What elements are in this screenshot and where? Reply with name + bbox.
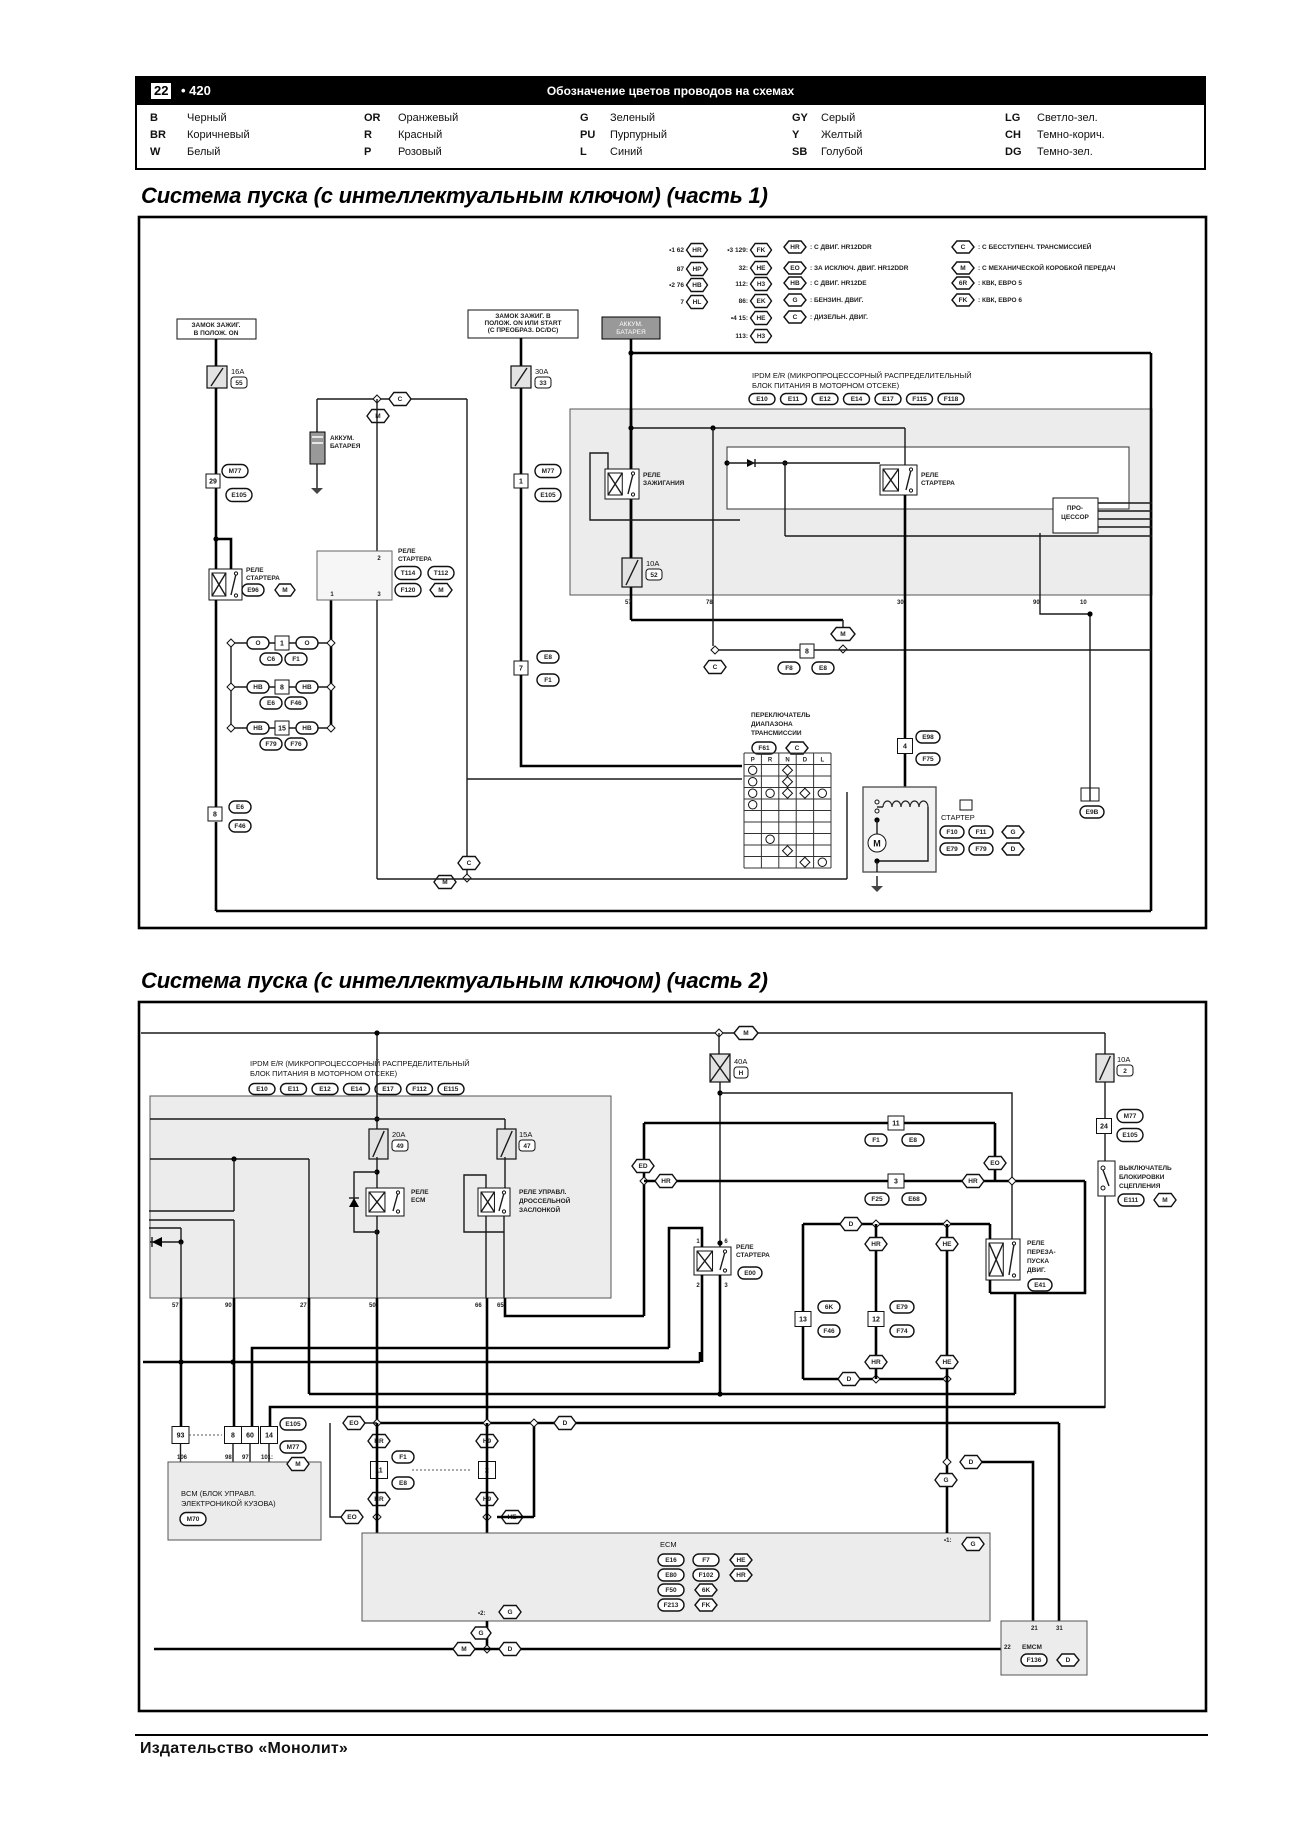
svg-text:F1: F1 — [292, 656, 300, 663]
svg-text:52: 52 — [650, 572, 658, 579]
svg-text:РЕЛЕ: РЕЛЕ — [643, 472, 661, 479]
svg-text:E6: E6 — [236, 804, 244, 811]
svg-text:HE: HE — [756, 315, 766, 322]
svg-text:В ПОЛОЖ. ON: В ПОЛОЖ. ON — [194, 330, 239, 337]
svg-text:15: 15 — [278, 725, 286, 732]
svg-text:M77: M77 — [229, 468, 242, 475]
svg-text:HR: HR — [968, 1178, 978, 1185]
svg-text:СЦЕПЛЕНИЯ: СЦЕПЛЕНИЯ — [1119, 1183, 1161, 1190]
svg-text:C: C — [398, 396, 403, 403]
svg-text:: С БЕССТУПЕНЧ. ТРАНСМИССИЕЙ: : С БЕССТУПЕНЧ. ТРАНСМИССИЕЙ — [978, 242, 1092, 251]
svg-text:E96: E96 — [247, 587, 259, 594]
svg-text:РЕЛЕ: РЕЛЕ — [921, 472, 939, 479]
svg-text:F50: F50 — [665, 1587, 677, 1594]
svg-text:C: C — [961, 244, 966, 251]
svg-text:F112: F112 — [412, 1086, 427, 1093]
svg-text:ЗАСЛОНКОЙ: ЗАСЛОНКОЙ — [519, 1205, 560, 1214]
svg-text:1: 1 — [696, 1239, 700, 1245]
svg-text:E8: E8 — [544, 654, 552, 661]
svg-text:E8: E8 — [909, 1137, 917, 1144]
svg-text:FK: FK — [757, 247, 766, 254]
svg-text:E105: E105 — [540, 492, 556, 499]
svg-text:D: D — [1066, 1657, 1071, 1664]
svg-text:C: C — [793, 314, 798, 321]
svg-text:EO: EO — [990, 1160, 999, 1167]
svg-text:ECM: ECM — [660, 1540, 677, 1549]
svg-text:EMCM: EMCM — [1022, 1644, 1042, 1651]
svg-text:57: 57 — [172, 1303, 179, 1309]
svg-text:M: M — [873, 839, 881, 849]
svg-text:HP: HP — [692, 266, 702, 273]
svg-text:FK: FK — [959, 297, 968, 304]
svg-text:•4 15:: •4 15: — [731, 315, 748, 322]
svg-text:F136: F136 — [1027, 1657, 1042, 1664]
svg-text:E41: E41 — [1034, 1282, 1046, 1289]
svg-text:EO: EO — [349, 1420, 358, 1427]
svg-text:G: G — [507, 1609, 512, 1616]
svg-text:M: M — [461, 1646, 466, 1653]
svg-text:8: 8 — [280, 684, 284, 691]
svg-text:HL: HL — [693, 299, 702, 306]
svg-text:F46: F46 — [823, 1328, 835, 1335]
svg-text:47: 47 — [523, 1143, 531, 1150]
svg-text:6K: 6K — [702, 1587, 711, 1594]
svg-text:78: 78 — [706, 600, 713, 606]
svg-text:ВЫКЛЮЧАТЕЛЬ: ВЫКЛЮЧАТЕЛЬ — [1119, 1165, 1172, 1172]
svg-text:FK: FK — [702, 1602, 711, 1609]
svg-text:HR: HR — [692, 247, 702, 254]
svg-text:E105: E105 — [231, 492, 247, 499]
svg-text:C6: C6 — [267, 656, 276, 663]
svg-text:E11: E11 — [288, 1086, 300, 1093]
svg-text:8: 8 — [805, 648, 809, 655]
svg-text:E68: E68 — [908, 1196, 920, 1203]
svg-text:СТАРТЕРА: СТАРТЕРА — [246, 575, 280, 582]
svg-text:РЕЛЕ: РЕЛЕ — [411, 1189, 429, 1196]
svg-text:7: 7 — [680, 299, 684, 306]
svg-text:3: 3 — [894, 1178, 898, 1185]
svg-text:31: 31 — [1056, 1626, 1063, 1632]
svg-text:СТАРТЕРА: СТАРТЕРА — [921, 480, 955, 487]
svg-text:ЭЛЕКТРОНИКОЙ КУЗОВА): ЭЛЕКТРОНИКОЙ КУЗОВА) — [181, 1499, 276, 1508]
svg-text:55: 55 — [235, 380, 243, 387]
svg-text:E10: E10 — [256, 1086, 268, 1093]
svg-text:: ДИЗЕЛЬН. ДВИГ.: : ДИЗЕЛЬН. ДВИГ. — [810, 314, 868, 321]
svg-text:ПЕРЕЗА-: ПЕРЕЗА- — [1027, 1249, 1056, 1256]
svg-text:C: C — [795, 745, 800, 752]
svg-text:87: 87 — [677, 266, 685, 273]
svg-text:32:: 32: — [739, 265, 748, 272]
svg-text:D: D — [803, 758, 808, 764]
svg-text:E14: E14 — [851, 396, 863, 403]
svg-text:ЦЕССОР: ЦЕССОР — [1061, 514, 1089, 521]
svg-text:БАТАРЕЯ: БАТАРЕЯ — [616, 329, 646, 336]
svg-text:: С ДВИГ. HR12DDR: : С ДВИГ. HR12DDR — [810, 244, 872, 251]
svg-text:ПЕРЕКЛЮЧАТЕЛЬ: ПЕРЕКЛЮЧАТЕЛЬ — [751, 712, 811, 719]
svg-text:50: 50 — [369, 1303, 376, 1309]
svg-text:P: P — [751, 758, 755, 764]
svg-text:E14: E14 — [351, 1086, 363, 1093]
svg-text:HR: HR — [871, 1359, 881, 1366]
svg-text:F1: F1 — [544, 677, 552, 684]
svg-text:L: L — [820, 758, 824, 764]
svg-text:E11: E11 — [788, 396, 800, 403]
svg-text:M: M — [743, 1030, 748, 1037]
svg-text:IPDM E/R (МИКРОПРОЦЕССОРНЫЙ РА: IPDM E/R (МИКРОПРОЦЕССОРНЫЙ РАСПРЕДЕЛИТЕ… — [250, 1059, 470, 1068]
svg-text:13: 13 — [799, 1316, 807, 1323]
svg-text:93: 93 — [177, 1432, 185, 1439]
svg-text:O: O — [255, 640, 260, 647]
svg-text:IPDM E/R (МИКРОПРОЦЕССОРНЫЙ РА: IPDM E/R (МИКРОПРОЦЕССОРНЫЙ РАСПРЕДЕЛИТЕ… — [752, 371, 972, 380]
svg-text:T112: T112 — [434, 570, 449, 577]
svg-text:66: 66 — [475, 1303, 482, 1309]
svg-text:•2 76: •2 76 — [669, 282, 684, 289]
svg-text:АККУМ.: АККУМ. — [619, 321, 643, 328]
svg-text:F213: F213 — [664, 1602, 679, 1609]
svg-text:H3: H3 — [757, 281, 766, 288]
svg-text:C: C — [713, 664, 718, 671]
svg-text:F61: F61 — [758, 745, 770, 752]
svg-text:СТАРТЕРА: СТАРТЕРА — [736, 1252, 770, 1259]
svg-text:1: 1 — [519, 478, 523, 485]
svg-text:(С ПРЕОБРАЗ. DC/DC): (С ПРЕОБРАЗ. DC/DC) — [488, 327, 559, 334]
svg-text:11: 11 — [892, 1120, 900, 1127]
svg-text:N: N — [785, 758, 789, 764]
svg-text:24: 24 — [1100, 1123, 1108, 1130]
svg-text:EK: EK — [756, 298, 765, 305]
svg-text:F10: F10 — [946, 829, 958, 836]
svg-text:E8: E8 — [399, 1480, 407, 1487]
svg-text:ECM: ECM — [411, 1197, 425, 1204]
svg-text:2: 2 — [696, 1283, 700, 1289]
svg-text:•1 62: •1 62 — [669, 247, 684, 254]
svg-text:M: M — [438, 587, 443, 594]
svg-text:D: D — [849, 1221, 854, 1228]
svg-text:•3 129:: •3 129: — [727, 247, 748, 254]
svg-text:РЕЛЕ: РЕЛЕ — [736, 1244, 754, 1251]
svg-text:16A: 16A — [231, 367, 244, 376]
svg-text:E12: E12 — [819, 396, 831, 403]
svg-text:•2:: •2: — [478, 1611, 485, 1617]
svg-text:ТРАНСМИССИИ: ТРАНСМИССИИ — [751, 730, 802, 737]
svg-text:112:: 112: — [735, 281, 748, 288]
svg-text:E16: E16 — [665, 1557, 677, 1564]
svg-text:F11: F11 — [976, 829, 987, 836]
svg-text:E79: E79 — [946, 846, 958, 853]
svg-text:F46: F46 — [290, 700, 302, 707]
svg-text:10A: 10A — [1117, 1055, 1130, 1064]
svg-text:D: D — [847, 1376, 852, 1383]
svg-text:E111: E111 — [1124, 1197, 1139, 1204]
svg-text:15A: 15A — [519, 1130, 532, 1139]
svg-text:F74: F74 — [896, 1328, 908, 1335]
svg-text:49: 49 — [396, 1143, 404, 1150]
svg-text:HB: HB — [302, 684, 312, 691]
svg-text:40A: 40A — [734, 1057, 747, 1066]
svg-text:E105: E105 — [285, 1421, 301, 1428]
svg-text:ПОЛОЖ. ON ИЛИ START: ПОЛОЖ. ON ИЛИ START — [484, 320, 561, 327]
svg-text:97: 97 — [242, 1455, 249, 1461]
svg-text:HR: HR — [871, 1241, 881, 1248]
svg-text:ED: ED — [638, 1163, 647, 1170]
svg-text:2: 2 — [1123, 1068, 1127, 1075]
svg-text:HE: HE — [756, 265, 766, 272]
svg-text:РЕЛЕ УПРАВЛ.: РЕЛЕ УПРАВЛ. — [519, 1189, 567, 1196]
svg-text:F75: F75 — [922, 756, 934, 763]
svg-text:F1: F1 — [872, 1137, 880, 1144]
svg-text:D: D — [969, 1459, 974, 1466]
svg-text:M: M — [282, 587, 287, 594]
svg-text:F7: F7 — [702, 1557, 710, 1564]
svg-text:F76: F76 — [290, 741, 302, 748]
svg-text:90: 90 — [225, 1303, 232, 1309]
svg-text:60: 60 — [246, 1432, 254, 1439]
svg-text:HB: HB — [790, 280, 800, 287]
svg-text:HR: HR — [790, 244, 800, 251]
svg-text:113:: 113: — [735, 333, 748, 340]
svg-text:E12: E12 — [319, 1086, 331, 1093]
svg-text:G: G — [478, 1630, 483, 1637]
svg-text:F79: F79 — [265, 741, 277, 748]
svg-text:86:: 86: — [739, 298, 748, 305]
svg-text:БЛОК ПИТАНИЯ В МОТОРНОМ ОТСЕКЕ: БЛОК ПИТАНИЯ В МОТОРНОМ ОТСЕКЕ) — [250, 1069, 398, 1078]
svg-text:: КВК, ЕВРО 6: : КВК, ЕВРО 6 — [978, 297, 1022, 304]
svg-text:HR: HR — [736, 1572, 746, 1579]
svg-text:F79: F79 — [975, 846, 987, 853]
svg-text:90: 90 — [1033, 600, 1040, 606]
svg-text:HB: HB — [253, 684, 263, 691]
svg-text:F118: F118 — [944, 396, 959, 403]
svg-text:M77: M77 — [287, 1444, 300, 1451]
svg-text:4: 4 — [903, 743, 907, 750]
svg-text:D: D — [508, 1646, 513, 1653]
svg-text:: С ДВИГ. HR12DE: : С ДВИГ. HR12DE — [810, 280, 867, 287]
svg-text:30A: 30A — [535, 367, 548, 376]
svg-text:6K: 6K — [825, 1304, 834, 1311]
svg-text:ЗАМОК ЗАЖИГ. В: ЗАМОК ЗАЖИГ. В — [495, 313, 551, 320]
svg-text:РЕЛЕ: РЕЛЕ — [398, 548, 416, 555]
svg-text:M77: M77 — [1124, 1113, 1137, 1120]
svg-text:БЛОКИРОВКИ: БЛОКИРОВКИ — [1119, 1174, 1165, 1181]
svg-text:7: 7 — [519, 665, 523, 672]
svg-text:•1:: •1: — [944, 1538, 951, 1544]
svg-text:M: M — [840, 631, 845, 638]
svg-text:: БЕНЗИН. ДВИГ.: : БЕНЗИН. ДВИГ. — [810, 297, 864, 304]
svg-text:E10: E10 — [756, 396, 768, 403]
svg-text:G: G — [970, 1541, 975, 1548]
svg-text:EO: EO — [790, 265, 799, 272]
svg-text:98: 98 — [225, 1455, 232, 1461]
svg-text:ДРОССЕЛЬНОЙ: ДРОССЕЛЬНОЙ — [519, 1196, 571, 1205]
svg-text:HE: HE — [736, 1557, 746, 1564]
svg-text:M: M — [442, 879, 447, 886]
svg-text:21: 21 — [1031, 1626, 1038, 1632]
svg-text:C: C — [467, 860, 472, 867]
svg-text:АККУМ.: АККУМ. — [330, 435, 354, 442]
svg-text:D: D — [563, 1420, 568, 1427]
svg-text:ЗАЖИГАНИЯ: ЗАЖИГАНИЯ — [643, 480, 685, 487]
svg-text:10: 10 — [1080, 600, 1087, 606]
svg-text:ПУСКА: ПУСКА — [1027, 1258, 1049, 1265]
svg-text:HB: HB — [253, 725, 263, 732]
svg-text:T114: T114 — [401, 570, 416, 577]
svg-text:BCM (БЛОК УПРАВЛ.: BCM (БЛОК УПРАВЛ. — [181, 1489, 256, 1498]
svg-text:8: 8 — [213, 811, 217, 818]
svg-text:8: 8 — [231, 1432, 235, 1439]
svg-text:F102: F102 — [699, 1572, 714, 1579]
svg-text:: ЗА ИСКЛЮЧ. ДВИГ. HR12DDR: : ЗА ИСКЛЮЧ. ДВИГ. HR12DDR — [810, 265, 909, 272]
svg-text:101:: 101: — [261, 1455, 273, 1461]
svg-text:РЕЛЕ: РЕЛЕ — [1027, 1240, 1045, 1247]
svg-text:M: M — [960, 265, 965, 272]
svg-text:F1: F1 — [399, 1454, 407, 1461]
svg-text:12: 12 — [872, 1316, 880, 1323]
svg-text:HB: HB — [302, 725, 312, 732]
svg-text:EO: EO — [347, 1514, 356, 1521]
svg-text:ПРО-: ПРО- — [1067, 505, 1083, 512]
svg-text:106: 106 — [177, 1455, 188, 1461]
svg-text:E8: E8 — [819, 665, 827, 672]
svg-text:1: 1 — [280, 640, 284, 647]
svg-text:G: G — [792, 297, 797, 304]
svg-text:H: H — [739, 1070, 744, 1077]
svg-text:30: 30 — [897, 600, 904, 606]
svg-text:F115: F115 — [912, 396, 927, 403]
svg-text:E17: E17 — [882, 396, 894, 403]
svg-text:: КВК, ЕВРО 5: : КВК, ЕВРО 5 — [978, 280, 1022, 287]
svg-text:10A: 10A — [646, 559, 659, 568]
svg-text:O: O — [304, 640, 309, 647]
svg-text:R: R — [768, 758, 773, 764]
svg-text:E80: E80 — [665, 1572, 677, 1579]
svg-text:65: 65 — [497, 1303, 504, 1309]
svg-text:E115: E115 — [444, 1086, 459, 1093]
svg-text:СТАРТЕРА: СТАРТЕРА — [398, 556, 432, 563]
svg-text:РЕЛЕ: РЕЛЕ — [246, 567, 264, 574]
svg-text:6: 6 — [724, 1239, 728, 1245]
svg-text:HR: HR — [661, 1178, 671, 1185]
svg-text:27: 27 — [300, 1303, 307, 1309]
svg-text:14: 14 — [265, 1432, 273, 1439]
svg-text:: С МЕХАНИЧЕСКОЙ КОРОБКОЙ ПЕРЕ: : С МЕХАНИЧЕСКОЙ КОРОБКОЙ ПЕРЕДАЧ — [978, 263, 1116, 272]
svg-text:F120: F120 — [401, 587, 416, 594]
svg-text:E98: E98 — [922, 734, 934, 741]
svg-text:3: 3 — [724, 1283, 728, 1289]
svg-text:ДВИГ.: ДВИГ. — [1027, 1267, 1046, 1274]
svg-text:E79: E79 — [896, 1304, 908, 1311]
svg-text:ДИАПАЗОНА: ДИАПАЗОНА — [751, 721, 793, 728]
svg-text:M70: M70 — [187, 1516, 200, 1523]
svg-text:G: G — [1010, 829, 1015, 836]
svg-text:HE: HE — [942, 1359, 952, 1366]
svg-text:E00: E00 — [744, 1270, 756, 1277]
svg-text:E17: E17 — [382, 1086, 394, 1093]
svg-text:БАТАРЕЯ: БАТАРЕЯ — [330, 443, 361, 450]
svg-text:E9B: E9B — [1086, 809, 1099, 816]
svg-text:БЛОК ПИТАНИЯ В МОТОРНОМ ОТСЕКЕ: БЛОК ПИТАНИЯ В МОТОРНОМ ОТСЕКЕ) — [752, 381, 900, 390]
svg-text:M: M — [1162, 1197, 1167, 1204]
svg-text:M: M — [375, 413, 380, 420]
svg-text:E105: E105 — [1122, 1132, 1138, 1139]
svg-text:E6: E6 — [267, 700, 275, 707]
svg-text:F25: F25 — [871, 1196, 883, 1203]
svg-text:29: 29 — [209, 478, 217, 485]
svg-text:HE: HE — [942, 1241, 952, 1248]
svg-text:H3: H3 — [757, 333, 766, 340]
svg-text:M77: M77 — [542, 468, 555, 475]
svg-text:57: 57 — [625, 600, 632, 606]
svg-text:СТАРТЕР: СТАРТЕР — [941, 813, 975, 822]
svg-text:33: 33 — [539, 380, 547, 387]
svg-text:20A: 20A — [392, 1130, 405, 1139]
svg-text:6R: 6R — [959, 280, 968, 287]
svg-text:ЗАМОК ЗАЖИГ.: ЗАМОК ЗАЖИГ. — [191, 322, 240, 329]
svg-text:HB: HB — [692, 282, 702, 289]
svg-text:M: M — [295, 1461, 300, 1468]
svg-text:F8: F8 — [785, 665, 793, 672]
svg-text:D: D — [1011, 846, 1016, 853]
svg-text:G: G — [943, 1477, 948, 1484]
svg-text:F46: F46 — [234, 823, 246, 830]
svg-text:22: 22 — [1004, 1645, 1011, 1651]
